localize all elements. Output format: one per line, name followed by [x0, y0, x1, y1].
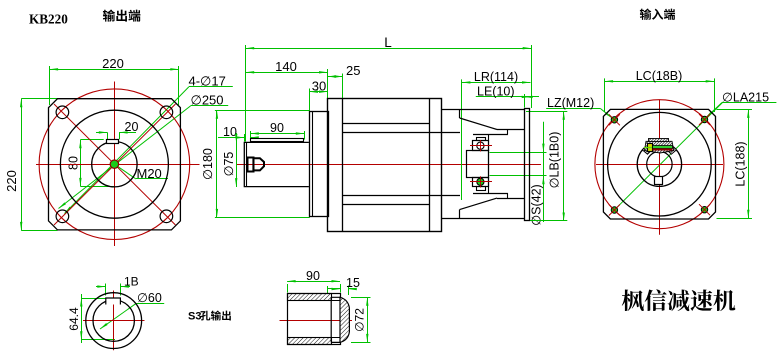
svg-text:90: 90	[270, 121, 284, 135]
gearbox body right cap line	[429, 99, 431, 232]
svg-text:220: 220	[4, 170, 19, 192]
label input-end 输入端	[640, 9, 675, 20]
right view centerline horizontal	[596, 164, 723, 166]
right flange square outline	[603, 109, 715, 219]
input bearing top	[470, 138, 492, 152]
S3 outer circle	[86, 293, 142, 349]
svg-text:80: 80	[67, 156, 81, 170]
input bore keyway	[655, 177, 663, 185]
input hub circle	[637, 142, 681, 186]
dim diam180	[201, 110, 310, 217]
leader diamLA215	[705, 91, 777, 119]
clamp collar hatched ring sector	[642, 142, 676, 154]
svg-text:140: 140	[275, 59, 297, 74]
svg-text:1B: 1B	[124, 274, 139, 288]
dim LE(10)	[476, 85, 539, 108]
svg-text:LC(18B): LC(18B)	[636, 69, 683, 83]
svg-text:90: 90	[306, 269, 320, 283]
input bore circle	[647, 152, 672, 177]
leader 4-diam17	[64, 74, 233, 215]
right corner hole bottom-left	[609, 205, 620, 216]
S3 dim 64.4	[67, 294, 115, 343]
dim 10 shaft step	[218, 125, 259, 141]
clamp collar green bar	[653, 146, 673, 149]
svg-text:20: 20	[125, 120, 139, 134]
right view dim LC(18B) top	[605, 69, 715, 112]
input bearing hub	[467, 130, 508, 199]
sleeve body outline	[287, 294, 340, 345]
clamp collar screw block	[644, 144, 653, 152]
sleeve hatched top wall	[288, 294, 332, 301]
sleeve centerline	[280, 320, 353, 322]
left center M20 hole	[110, 160, 118, 168]
S3 bore circle diam60	[93, 300, 134, 341]
label S3 hole output	[188, 311, 231, 323]
gearbox body left cap line	[342, 99, 344, 232]
dim diam75	[222, 133, 237, 187]
left corner hole top-left	[56, 106, 69, 119]
title KB220	[29, 12, 68, 27]
clamp collar hatched block	[645, 141, 674, 153]
svg-text:LE(10): LE(10)	[477, 85, 515, 99]
svg-text:∅LB(1B0): ∅LB(1B0)	[548, 132, 562, 189]
right view centerline vertical	[659, 100, 661, 235]
input housing outline	[441, 109, 524, 218]
dim 25	[328, 63, 361, 98]
right corner hole top-left	[609, 114, 620, 125]
right flange big circle	[608, 112, 712, 216]
left keyway rectangle	[107, 140, 119, 144]
svg-text:15: 15	[346, 276, 360, 290]
side view main centerline	[237, 164, 541, 166]
svg-text:M20: M20	[137, 166, 162, 181]
left view dim 220 vertical	[4, 99, 57, 231]
leader M20	[114, 164, 168, 181]
svg-text:LZ(M12): LZ(M12)	[547, 96, 594, 110]
gearbox body bottom inner lines	[342, 196, 460, 205]
output flange plate	[310, 112, 329, 217]
left flange pilot circle diam180	[60, 110, 168, 218]
svg-text:64.4: 64.4	[67, 307, 81, 331]
sleeve dim 15	[327, 276, 360, 295]
svg-text:L: L	[384, 35, 392, 50]
sleeve dim diam72	[351, 297, 371, 342]
svg-text:220: 220	[102, 56, 124, 71]
S3 dim 18	[96, 274, 139, 295]
S3 centerline horizontal	[83, 320, 145, 322]
gearbox body top inner lines	[342, 124, 460, 133]
left corner hole top-right	[160, 106, 173, 119]
right view dim LC(188) right	[717, 109, 753, 218]
svg-text:∅250: ∅250	[191, 93, 224, 108]
gearbox body outline	[328, 99, 442, 232]
left view centerline vertical	[114, 82, 116, 247]
output shaft body	[244, 142, 309, 186]
svg-text:4-∅17: 4-∅17	[189, 74, 226, 89]
left view centerline horizontal	[36, 164, 200, 166]
input end plate	[525, 109, 530, 221]
dim diamLB(180)	[526, 111, 567, 221]
dim 90 shaft	[250, 121, 304, 139]
left shaft circle diam75	[92, 142, 137, 187]
label output-end 输出端	[103, 10, 141, 22]
logo 枫信减速机	[622, 289, 736, 311]
left view bolt circle diam250	[39, 89, 190, 240]
svg-text:∅60: ∅60	[137, 291, 162, 305]
output shaft keyway strip	[251, 139, 304, 142]
dim L	[246, 35, 532, 142]
left view dim 220 horizontal	[50, 56, 179, 105]
leader diam250	[58, 93, 228, 210]
svg-text:KB220: KB220	[29, 12, 68, 27]
svg-text:LC(188): LC(188)	[734, 141, 748, 186]
sleeve end cap	[331, 297, 349, 342]
svg-text:∅S(42): ∅S(42)	[530, 184, 544, 225]
svg-text:∅180: ∅180	[201, 148, 215, 180]
dim diamS(42)	[490, 122, 547, 226]
svg-text:25: 25	[346, 63, 360, 78]
right view diagonal leader	[613, 102, 724, 212]
left corner hole bottom-right	[160, 210, 173, 223]
output shaft center bolt	[248, 158, 265, 172]
input bearing bottom	[470, 176, 492, 190]
left view diagonal centerline 1	[54, 104, 176, 225]
svg-text:∅72: ∅72	[353, 308, 367, 332]
left view dim 20 keyway	[96, 120, 138, 139]
clamp collar top hatch strip	[649, 139, 669, 142]
left view dim 80	[67, 140, 115, 187]
right corner hole bottom-right	[699, 204, 710, 215]
sleeve dim 90	[287, 269, 340, 293]
dim LR(114)	[462, 70, 531, 200]
S3 keyway notch	[106, 298, 121, 305]
svg-text:∅75: ∅75	[222, 152, 236, 177]
left view diagonal centerline 2	[54, 104, 176, 225]
dim 30	[310, 78, 328, 110]
svg-text:∅LA215: ∅LA215	[722, 91, 769, 105]
S3 centerline vertical	[113, 291, 115, 351]
right view bolt circle LA215	[595, 100, 724, 229]
svg-text:S3: S3	[188, 311, 201, 323]
dim 140	[246, 59, 328, 99]
clamp collar red bar	[653, 149, 673, 151]
right corner hole top-right	[699, 114, 710, 125]
svg-text:30: 30	[312, 78, 326, 93]
leader LZ(M12)	[546, 96, 613, 119]
svg-text:10: 10	[223, 125, 237, 139]
left flange square outline	[49, 99, 181, 230]
svg-text:LR(114): LR(114)	[474, 70, 518, 84]
S3 leader diam60	[99, 291, 164, 330]
left corner hole bottom-left	[56, 210, 69, 223]
sleeve hatched bottom wall	[288, 338, 332, 345]
